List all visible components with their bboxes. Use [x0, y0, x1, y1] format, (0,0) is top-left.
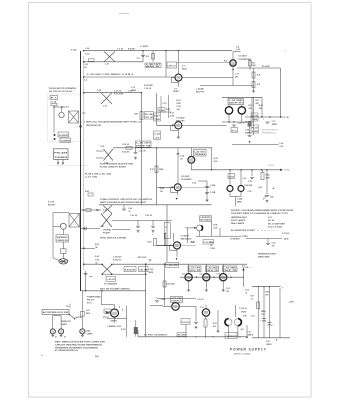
- resistor R-8: [252, 72, 255, 78]
- junction: [261, 116, 262, 117]
- wire V-5 cathode loop: [170, 187, 177, 192]
- wire L-38 lead: [165, 51, 167, 77]
- wire row5 left: [84, 263, 102, 265]
- junction: [141, 92, 142, 93]
- tube V-2 6SA7 converter: [230, 60, 236, 66]
- svg-text:AC INTERLOCK SW: AC INTERLOCK SW: [43, 311, 69, 314]
- junction: [269, 116, 270, 117]
- svg-text:C-64: C-64: [245, 289, 249, 292]
- svg-text:C-68: C-68: [266, 341, 270, 343]
- svg-text:R-23: R-23: [249, 105, 253, 107]
- junction: [228, 336, 229, 337]
- svg-text:470K: 470K: [266, 177, 271, 180]
- wire R-2 lead: [152, 51, 154, 62]
- svg-text:V-12: V-12: [200, 307, 204, 309]
- junction: [266, 169, 267, 170]
- wire secondary bus lead: [83, 56, 85, 270]
- wire T-2 right bottom lead: [241, 114, 243, 122]
- resistor R-52: [163, 281, 166, 287]
- electrolytic C-65: [262, 318, 266, 320]
- wire AC line across: [81, 290, 147, 292]
- wire line cap lead: [85, 271, 87, 291]
- wire V-3 grid: [157, 124, 175, 126]
- label box R-16: [231, 128, 238, 133]
- svg-text:2MFD: 2MFD: [149, 272, 154, 274]
- wire idler down: [62, 253, 64, 258]
- svg-text:V-5 6SQ7: V-5 6SQ7: [181, 176, 191, 178]
- tube V-10 6AU6: [220, 274, 227, 281]
- dot V-6 cathode: [176, 258, 178, 260]
- dashed record changer enclosure: [48, 94, 81, 142]
- wire pickup pin2: [62, 160, 64, 164]
- junction: [229, 169, 230, 170]
- svg-text:CIRCUIT RESTRICTIONS REFEREN: CIRCUIT RESTRICTIONS REFERENCE: [55, 344, 103, 346]
- svg-text:V-9: V-9: [200, 273, 203, 275]
- dark hatched switch blob: [59, 259, 68, 264]
- svg-text:NO. 47 BAYONET: NO. 47 BAYONET: [268, 223, 286, 226]
- svg-text:L-51 1ST: L-51 1ST: [189, 267, 201, 269]
- transformer label box L-38: [145, 63, 163, 68]
- junction bus row1b: [83, 61, 85, 63]
- wire row5 heater bus: [180, 276, 244, 278]
- svg-text:R/S No. 12-4000: R/S No. 12-4000: [234, 353, 251, 356]
- stray dot: [285, 51, 286, 52]
- svg-text:C-40: C-40: [128, 207, 132, 210]
- arrowhead row3 end: [280, 169, 283, 171]
- resistor R-43: [154, 239, 157, 246]
- svg-text:FROM SOCKET PINS: FROM SOCKET PINS: [86, 125, 102, 127]
- wire corner drop: [137, 330, 139, 337]
- junction: [232, 69, 233, 70]
- wire tone line: [156, 93, 158, 126]
- svg-text:.5MFD: .5MFD: [272, 124, 278, 126]
- svg-text:L-53 3RD: L-53 3RD: [223, 267, 238, 269]
- tone label box: [154, 113, 161, 121]
- svg-text:P-1: P-1: [51, 98, 57, 100]
- svg-text:C-54A: C-54A: [237, 198, 243, 201]
- svg-text:FM IF TR: FM IF TR: [189, 270, 202, 272]
- wire long mid drop: [145, 264, 147, 337]
- ground lamp3: [81, 334, 84, 337]
- svg-text:REF: SERVICE NOTES FOR COMPLET: REF: SERVICE NOTES FOR COMPLETE: [55, 341, 106, 343]
- motor T-1 crossed box: [69, 111, 79, 123]
- capacitor C-42: [151, 226, 155, 227]
- svg-text:B+ 250V: B+ 250V: [262, 66, 271, 68]
- junction: [101, 290, 102, 291]
- svg-text:TO PIN 7 OF 6SN7GT: TO PIN 7 OF 6SN7GT: [144, 334, 168, 336]
- wire V-12 top lead: [205, 305, 207, 309]
- box C-23: [158, 108, 165, 113]
- wire de-emphasis drop: [187, 228, 189, 243]
- wire T-4 right lead: [240, 170, 242, 186]
- pickup coil crossed: [101, 214, 112, 228]
- tube V-3 6SQ7 2nd det: [175, 122, 182, 129]
- wire ratio det bottom lead: [199, 231, 201, 236]
- wire V-2 cathode lead: [232, 67, 234, 86]
- capacitor C-54A2: [155, 301, 159, 302]
- speed switch box2: [60, 138, 71, 143]
- svg-text:POWER SUPPLY: POWER SUPPLY: [230, 347, 267, 351]
- selector switch box S-2: [164, 223, 170, 239]
- svg-text:SW-1 ON VOLUME CONTROL: SW-1 ON VOLUME CONTROL: [100, 288, 130, 290]
- arrowhead pin1: [57, 163, 59, 166]
- wire C-53 chain: [206, 181, 208, 199]
- label box row5a: [124, 267, 136, 272]
- wire V-6 grid: [157, 244, 173, 246]
- wire V-6 input drop: [164, 233, 166, 245]
- wire V-7 bottom lead: [114, 317, 116, 323]
- svg-text:.01: .01: [245, 293, 247, 295]
- svg-text:FM IF TR: FM IF TR: [136, 145, 152, 147]
- wire R-54 lead top: [205, 316, 207, 319]
- wire row4 mid: [112, 220, 172, 222]
- mark V-5 cathode: [176, 198, 178, 200]
- svg-text:C-27: C-27: [272, 121, 276, 123]
- wire C-35 lead: [135, 148, 137, 152]
- wire osc loop right: [211, 148, 213, 170]
- resistor R-37 250K: [155, 166, 158, 173]
- svg-text:REC PLAY: REC PLAY: [138, 256, 147, 259]
- wire grid resistor lead: [168, 95, 170, 118]
- wire box to idler: [62, 242, 64, 249]
- svg-text:R-47: R-47: [95, 243, 99, 246]
- svg-text:R-52 470K: R-52 470K: [167, 282, 176, 285]
- ground C-42: [152, 230, 155, 233]
- arrowhead +B up: [242, 267, 244, 270]
- wire filter drop: [126, 306, 128, 337]
- wire output bottom2: [237, 326, 239, 337]
- junction: [165, 50, 166, 51]
- svg-text:L-31: L-31: [103, 106, 107, 108]
- svg-text:R-55: R-55: [213, 323, 217, 325]
- pilot lamp 1: [50, 329, 55, 334]
- wire T-4 right bottom: [240, 192, 242, 197]
- discriminator trimmer left circle: [227, 186, 233, 192]
- IF trimmer right circle: [238, 107, 245, 114]
- wire C-41 lead: [137, 221, 139, 226]
- svg-text:L-50: L-50: [103, 209, 107, 211]
- junction: [61, 106, 62, 107]
- wire B+ vertical right: [280, 68, 282, 117]
- wire PS leg2: [263, 287, 265, 338]
- wire mid link: [157, 297, 196, 299]
- svg-text:L-41: L-41: [236, 48, 240, 51]
- capacitor C-2: [141, 55, 145, 56]
- capacitor C-47 marks: [149, 259, 151, 262]
- svg-text:C-61 10: C-61 10: [268, 165, 274, 167]
- svg-text:C-24 100: C-24 100: [237, 122, 244, 125]
- svg-text:C-54A: C-54A: [161, 298, 167, 301]
- junction: [156, 147, 157, 148]
- wire C-40 lead: [123, 205, 125, 209]
- ground C-53: [206, 199, 209, 202]
- junction: [230, 277, 231, 278]
- tube V-1 6SQ7: [175, 74, 182, 81]
- svg-text:100: 100: [177, 109, 180, 111]
- svg-text:SPEED: SPEED: [57, 237, 70, 239]
- tube V-6B ratio det crescent: [197, 225, 203, 231]
- wire C-57 lead: [246, 325, 248, 338]
- wire ratio det in: [185, 227, 197, 229]
- svg-text:R-57: R-57: [251, 295, 255, 297]
- junction: [196, 277, 197, 278]
- box L-301: [106, 276, 116, 281]
- junction bus row2: [83, 92, 85, 94]
- svg-text:R-7: R-7: [252, 62, 255, 64]
- wire ratio det bottom: [196, 235, 241, 237]
- wire T-2 right lead: [241, 105, 243, 107]
- junction: [195, 336, 196, 337]
- svg-text:V-2 6SA7: V-2 6SA7: [238, 55, 247, 58]
- svg-text:NOTE: SWITCH S-2 SHOWN: NOTE: SWITCH S-2 SHOWN: [100, 238, 127, 240]
- svg-text:C-301 470: C-301 470: [113, 256, 121, 259]
- wire lamp link: [53, 225, 60, 227]
- svg-text:ON 115V 60 CYCLE AC →: ON 115V 60 CYCLE AC →: [49, 90, 75, 93]
- wire C-60 lead: [266, 170, 268, 195]
- wire L-41 stub: [233, 51, 241, 53]
- svg-text:DET TRANS: DET TRANS: [200, 218, 212, 221]
- svg-text:.05: .05: [180, 158, 183, 160]
- resistor R-51 marks: [86, 209, 91, 212]
- label box C-300: [166, 262, 180, 267]
- svg-text:C-60: C-60: [258, 187, 262, 189]
- svg-text:LAMPS: LAMPS: [87, 333, 94, 336]
- ground V-10: [222, 289, 225, 292]
- wire oscillator row: [84, 76, 175, 78]
- wire lamp to box: [62, 229, 64, 235]
- capacitor line filter: [84, 274, 88, 275]
- svg-text:C-45: C-45: [95, 258, 99, 261]
- junction: [251, 116, 252, 117]
- junction: [240, 169, 241, 170]
- pilot lamp I-1 circle: [60, 223, 66, 229]
- svg-text:PHONO MOTOR OPERATES: PHONO MOTOR OPERATES: [49, 87, 77, 90]
- label box row5b: [139, 267, 149, 272]
- wire T-4 left bottom: [229, 192, 231, 197]
- svg-text:4MFD: 4MFD: [237, 201, 243, 204]
- wire main vertical bus: [80, 51, 82, 291]
- wire C-53 feed: [198, 180, 207, 182]
- svg-text:R-14: R-14: [177, 99, 181, 102]
- svg-text:R-37: R-37: [154, 115, 160, 117]
- svg-text:R-4 22K: R-4 22K: [128, 48, 135, 51]
- svg-text:L-43 2ND: L-43 2ND: [196, 88, 204, 91]
- svg-text:ALL RESISTORS 1/2 WATT: ALL RESISTORS 1/2 WATT: [231, 229, 256, 232]
- junction bus row4b: [83, 228, 85, 230]
- svg-text:C-59: C-59: [248, 181, 252, 183]
- svg-text:R-40: R-40: [160, 187, 164, 190]
- svg-text:C-57: C-57: [251, 315, 255, 317]
- svg-text:R-39: R-39: [214, 158, 218, 160]
- svg-text:C-306: C-306: [149, 269, 154, 271]
- wire R-52 drop: [164, 264, 166, 305]
- wire row3 long bus: [191, 169, 282, 171]
- wire lamp3 lead: [81, 291, 83, 329]
- wire avc stub: [160, 111, 171, 113]
- antenna coil L-37 crossed: [104, 52, 115, 62]
- capacitor C-53A: [205, 187, 209, 188]
- wire R-100 lead: [135, 320, 137, 327]
- svg-text:MOTOR: MOTOR: [76, 317, 83, 319]
- coil L-31 crossed: [101, 93, 112, 104]
- capacitor C-40: [122, 209, 126, 210]
- underline AC: [242, 267, 252, 269]
- speed switch box: [58, 132, 69, 137]
- wire ratio det right lead2: [219, 228, 221, 236]
- svg-text:TO FM: TO FM: [284, 170, 290, 172]
- svg-text:OUTPUT: OUTPUT: [171, 301, 183, 303]
- wire pickup second lead: [112, 229, 130, 231]
- svg-text:301: 301: [66, 306, 69, 308]
- junction: [263, 286, 264, 287]
- svg-text:AM IF TR: AM IF TR: [229, 102, 244, 105]
- svg-text:BOTTOM VIEW OF: BOTTOM VIEW OF: [262, 129, 279, 131]
- wire PS bottom: [252, 337, 290, 339]
- svg-text:NOTES: VOLTAGES MEASURED WITH: NOTES: VOLTAGES MEASURED WITH VTVM FROM: [231, 209, 294, 212]
- pilot lamp 2: [59, 329, 64, 334]
- wire V-10 bottom lead: [222, 281, 224, 289]
- svg-text:R-30: R-30: [166, 109, 170, 111]
- svg-text:SPEAKER SOCKET: SPEAKER SOCKET: [258, 252, 277, 255]
- component R-42 marks: [88, 193, 93, 196]
- svg-text:R-36: R-36: [145, 114, 153, 116]
- svg-text:K=1000 CAPACITY IN MFD: K=1000 CAPACITY IN MFD: [100, 165, 127, 168]
- wire T-4 left lead: [229, 170, 231, 186]
- wire to rectifier: [101, 291, 103, 305]
- svg-text:S-1 ON: S-1 ON: [48, 201, 55, 203]
- svg-text:V-6 6SQ7: V-6 6SQ7: [181, 236, 191, 238]
- wire V-7 top lead: [114, 305, 116, 309]
- AC interlock box: [42, 309, 69, 314]
- svg-text:12SK7: 12SK7: [173, 91, 180, 93]
- svg-text:SOCKET PINS TO CHASSIS B- LIN: SOCKET PINS TO CHASSIS B- LINE AC 117V: [231, 212, 289, 215]
- svg-text:250: 250: [235, 76, 238, 78]
- svg-text:R-42: R-42: [85, 190, 89, 193]
- svg-text:100: 100: [252, 119, 258, 121]
- svg-text:V-8: V-8: [182, 273, 185, 275]
- wire V-1 plate to V-2 cathode: [182, 76, 233, 78]
- label box R-53: [181, 319, 190, 325]
- svg-text:(REAR VIEW): (REAR VIEW): [258, 255, 270, 258]
- switch S-4 diagonal: [69, 314, 75, 318]
- wire bus to pickup: [81, 209, 102, 211]
- svg-text:.01: .01: [154, 137, 160, 139]
- ground lamp1: [51, 334, 54, 337]
- fuse symbol: [51, 103, 57, 105]
- svg-text:C-20: C-20: [97, 90, 101, 92]
- junction arrow V-5 grid: [171, 186, 173, 188]
- junction arrow V-3 grid: [172, 124, 174, 126]
- junction: [170, 245, 171, 246]
- svg-text:R-9: R-9: [257, 84, 260, 86]
- junction arrow ratio det: [194, 227, 196, 229]
- svg-text:L-30 OSC COIL 455KC C-4 R-3: L-30 OSC COIL 455KC C-4 R-3: [87, 73, 134, 76]
- capacitor C-24: [232, 125, 236, 126]
- capacitor C-58: [194, 322, 198, 323]
- svg-text:NOTE: RESISTANCE VALUES IN OHM: NOTE: RESISTANCE VALUES IN OHMS: [100, 162, 134, 165]
- svg-text:TRANS: TRANS: [194, 153, 207, 156]
- svg-text:R-24: R-24: [259, 104, 263, 107]
- wire PS top: [252, 286, 281, 288]
- junction blob motor to bus: [79, 125, 81, 127]
- label box R-56: [228, 174, 235, 179]
- junction: [258, 286, 259, 287]
- wire R-8 R-9 chain: [253, 68, 255, 90]
- svg-text:78 RPM: 78 RPM: [61, 140, 71, 142]
- svg-text:R-100: R-100: [121, 329, 126, 331]
- wire C-28 lead: [249, 127, 251, 135]
- wire IF secondary to V-2 grid: [177, 61, 230, 63]
- pickup head box: [54, 149, 69, 160]
- wire tick above interlock: [69, 304, 71, 309]
- svg-text:C-51 2000: C-51 2000: [204, 242, 213, 244]
- component symbol idler: [61, 249, 67, 254]
- svg-text:R-8: R-8: [257, 75, 260, 77]
- svg-text:HEATERS 6SQ7: HEATERS 6SQ7: [231, 216, 247, 219]
- wire second drop: [156, 148, 158, 205]
- ground V-9: [205, 289, 208, 292]
- resistor R-1: [89, 59, 95, 62]
- wire lamp feed link: [53, 315, 62, 317]
- wire pickup pin1: [57, 160, 59, 164]
- wire V-3 bottom lead: [177, 129, 179, 136]
- svg-text:C-6 .05: C-6 .05: [117, 49, 123, 51]
- svg-text:R-58: R-58: [243, 315, 247, 317]
- junction: [261, 169, 262, 170]
- wire motor2 top: [53, 212, 69, 214]
- electrolytic C-66: [268, 322, 272, 324]
- wire V-11 right: [179, 305, 196, 307]
- potentiometer R-36 volume: [140, 112, 143, 120]
- svg-text:C-35 .05: C-35 .05: [139, 150, 146, 152]
- svg-text:SPEAKER IN SERIES SOLDERED: SPEAKER IN SERIES SOLDERED: [55, 346, 99, 349]
- ground below R-9: [252, 90, 255, 93]
- svg-text:470K: 470K: [177, 102, 182, 105]
- svg-text:C-50: C-50: [192, 183, 196, 185]
- wire V-4 top lead: [190, 148, 192, 157]
- wire V-3 cathode loop: [171, 125, 179, 130]
- junction: [251, 169, 252, 170]
- label box bottom: [177, 333, 186, 337]
- wire C-46 lead: [177, 148, 179, 184]
- svg-text:PICKUP: PICKUP: [103, 233, 111, 235]
- svg-text:VOL 1M: VOL 1M: [145, 117, 153, 119]
- wire R-46 lead: [262, 170, 264, 173]
- ground output: [217, 330, 220, 333]
- svg-text:C-29: C-29: [177, 106, 181, 108]
- wire V-8 bottom lead: [188, 281, 190, 289]
- wire L-44 stub bottom: [96, 157, 104, 159]
- wire lamp1 lead: [52, 316, 54, 329]
- svg-text:R36: R36: [135, 113, 138, 115]
- svg-text:30MFD: 30MFD: [266, 344, 272, 346]
- svg-text:+275V: +275V: [289, 301, 295, 303]
- junction: [213, 277, 214, 278]
- wire V-1 plate lead: [178, 51, 180, 74]
- IF transformer box T-2: [228, 99, 244, 105]
- wire B+ feed row1: [237, 67, 281, 69]
- svg-text:R-12 470K: R-12 470K: [114, 93, 124, 96]
- ground C-41: [137, 230, 140, 233]
- svg-text:R-56: R-56: [229, 176, 234, 178]
- svg-text:MOTOR: MOTOR: [48, 204, 55, 206]
- wire R-53 lead: [185, 325, 187, 337]
- svg-text:SPEAKER PLUG: SPEAKER PLUG: [262, 131, 277, 134]
- svg-text:R-48: R-48: [95, 255, 99, 258]
- svg-text:.01: .01: [128, 211, 131, 213]
- wire IF right leg: [253, 97, 255, 135]
- dot C-28 end: [249, 141, 251, 143]
